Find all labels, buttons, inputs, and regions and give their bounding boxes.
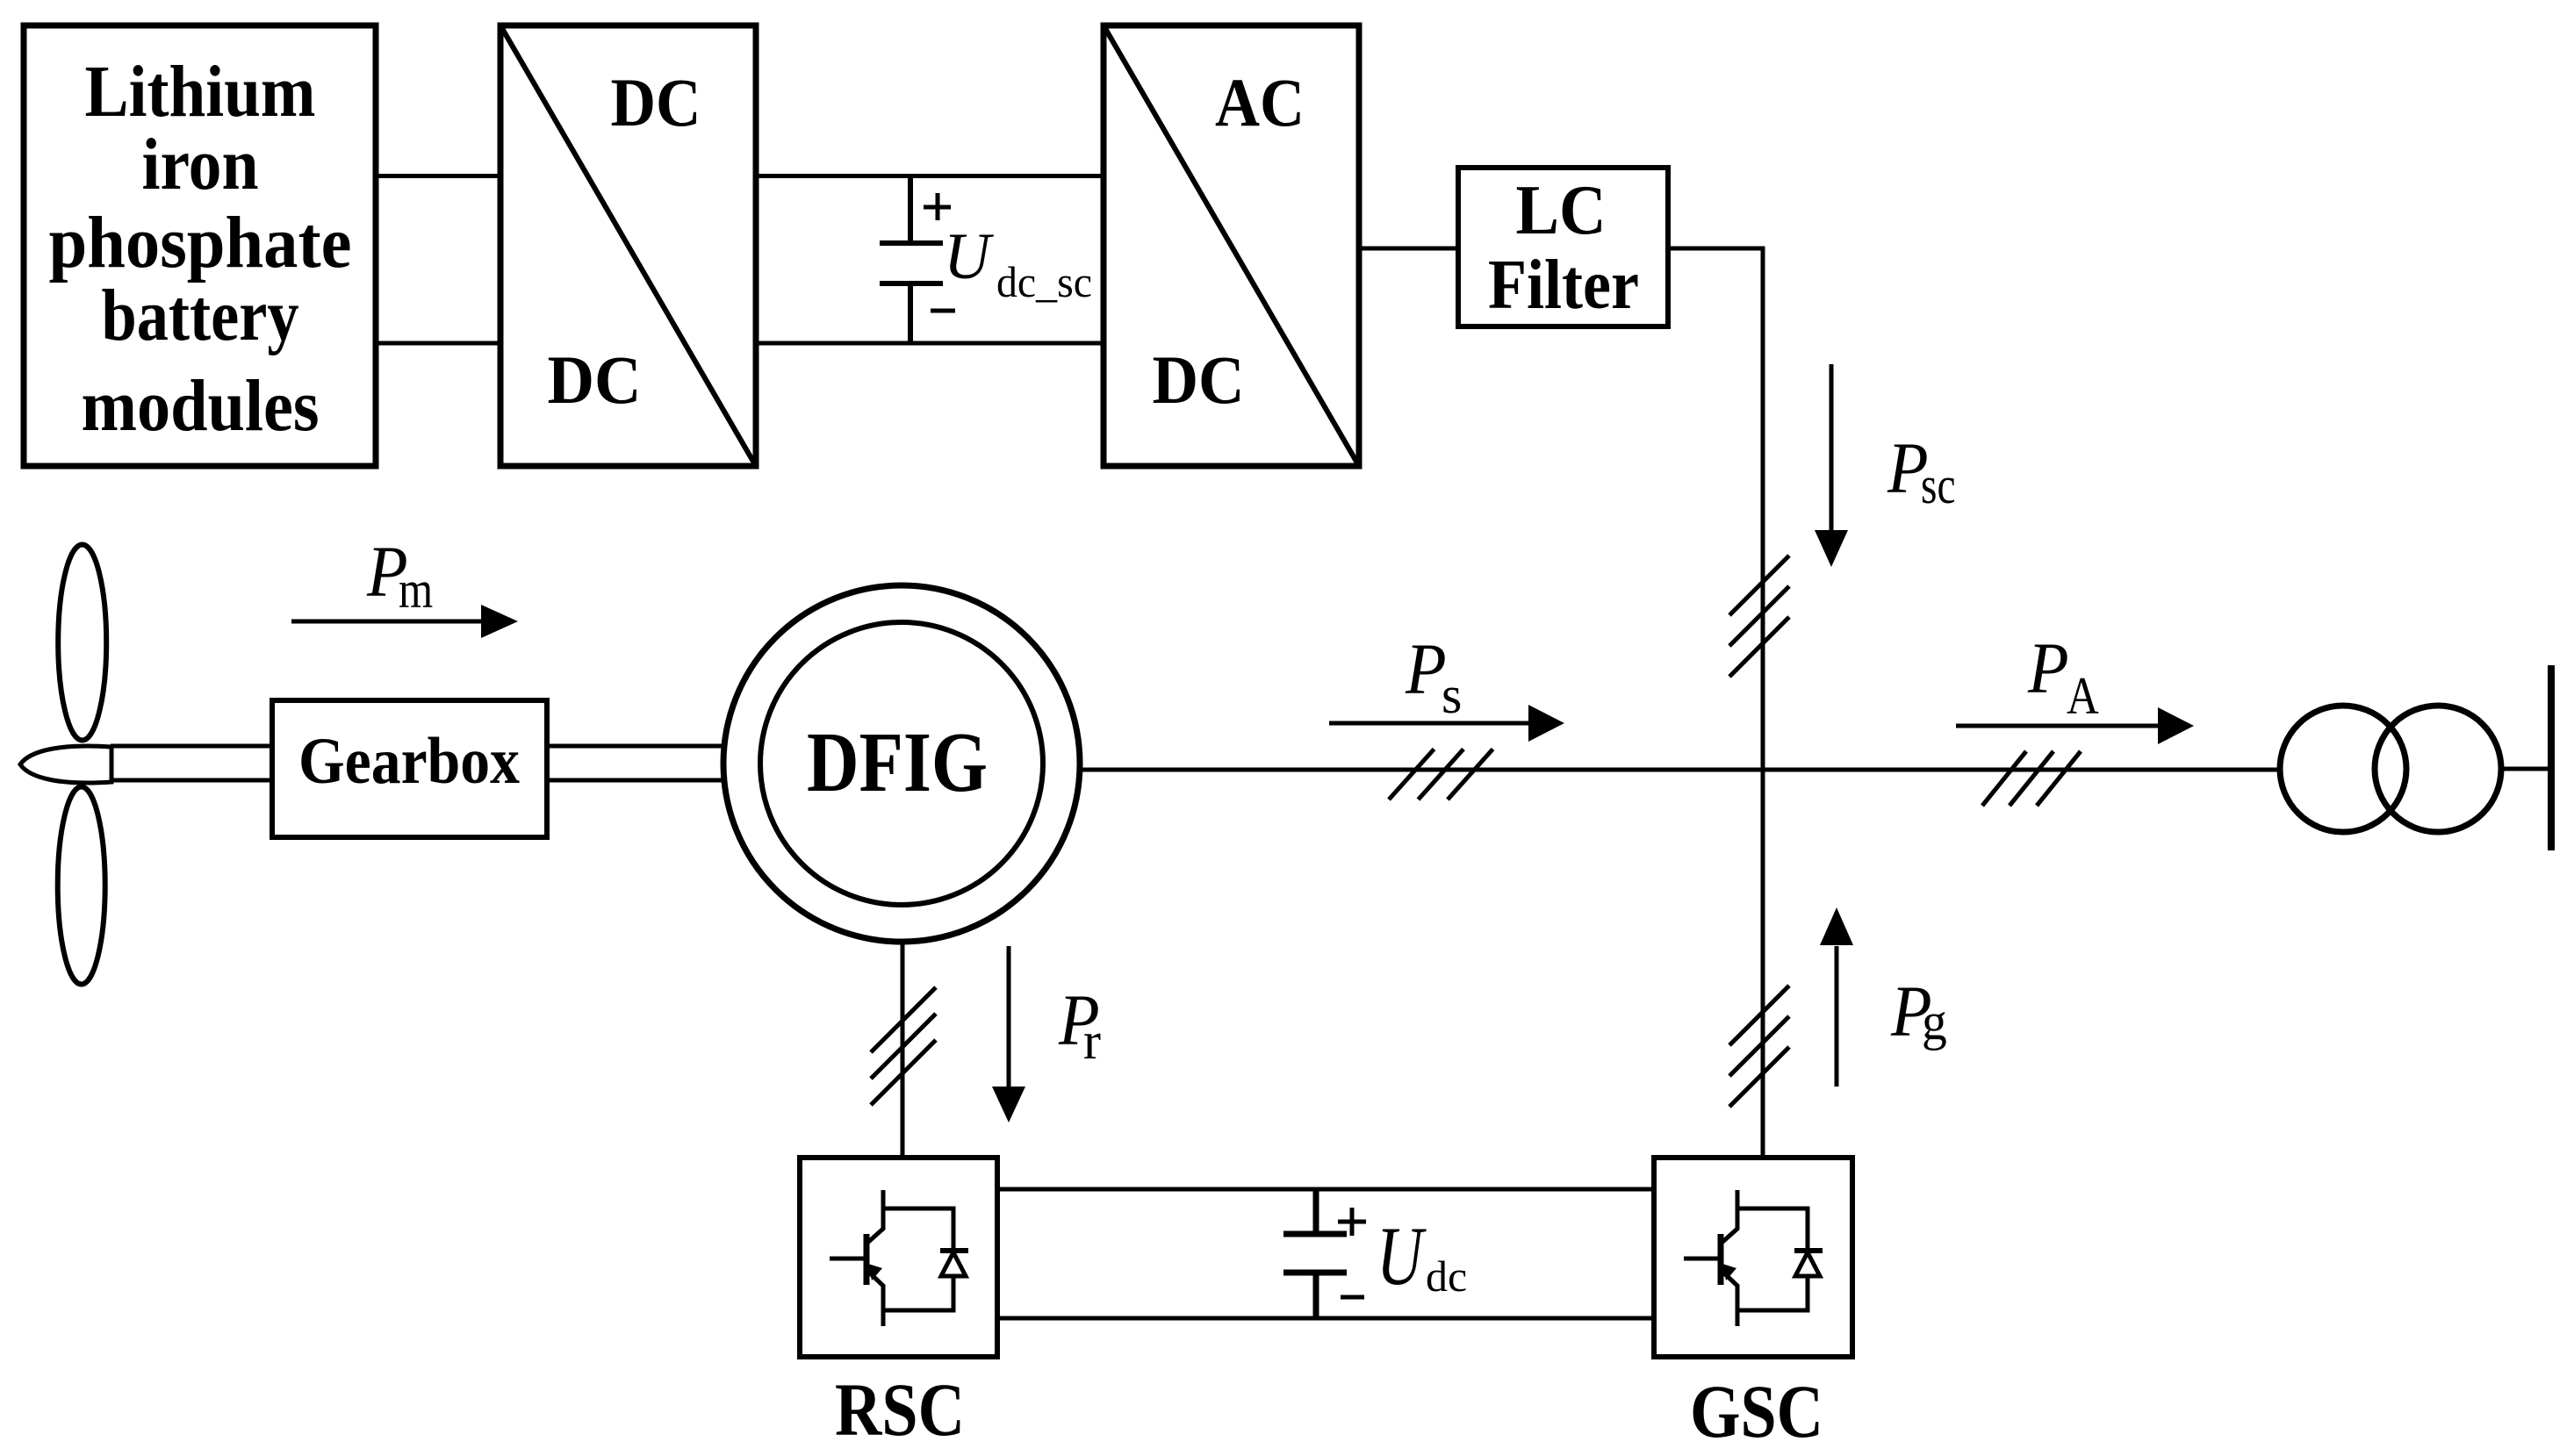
capacitor Udc [1283, 1189, 1366, 1318]
svg-text:r: r [1083, 1012, 1101, 1070]
converter GSC box [1654, 1158, 1852, 1357]
svg-text:iron: iron [142, 124, 259, 205]
wire battery to DC/DC bottom [376, 341, 500, 346]
three-phase slashes on LC drop above bus [1729, 556, 1789, 677]
LC filter box [1458, 168, 1668, 326]
wind turbine hub [20, 746, 111, 783]
svg-text:dc: dc [1426, 1252, 1467, 1301]
wire DC/DC to AC/DC bottom [756, 341, 1104, 346]
wind turbine blade (lower) [58, 787, 105, 985]
three-phase slashes on bus to transformer [1982, 751, 2081, 806]
wire RSC to GSC dc-link top [997, 1187, 1654, 1192]
svg-text:s: s [1442, 666, 1462, 724]
three-phase slashes on rotor wire [871, 987, 936, 1105]
wire AC/DC to LC filter [1359, 247, 1458, 251]
wire battery to DC/DC top [376, 174, 500, 178]
converter RSC box [800, 1158, 997, 1357]
svg-text:A: A [2067, 667, 2099, 726]
wire DC/DC to AC/DC top [756, 174, 1104, 178]
arrow Pg (up) [1820, 907, 1853, 1087]
transistor IGBT in GSC [1684, 1190, 1823, 1326]
generator DFIG [723, 585, 1080, 942]
svg-text:DC: DC [548, 341, 642, 418]
svg-text:Lithium: Lithium [85, 51, 316, 133]
svg-text:m: m [399, 561, 433, 619]
grid bus bar [2548, 665, 2555, 850]
svg-text:P: P [2027, 628, 2069, 709]
svg-text:phosphate: phosphate [49, 202, 352, 283]
arrow Ps [1329, 705, 1564, 742]
wire DFIG rotor down to RSC [901, 942, 905, 1158]
arrow Pr (down) [992, 946, 1025, 1122]
shaft turbine to gearbox (double line) [111, 744, 272, 749]
svg-text:P: P [1405, 629, 1447, 710]
three-phase slashes on GSC riser below bus [1729, 986, 1789, 1107]
main bus wire DFIG to transformer [1080, 768, 2280, 772]
svg-text:sc: sc [1921, 456, 1955, 515]
svg-text:AC: AC [1215, 64, 1305, 140]
svg-text:Gearbox: Gearbox [298, 725, 520, 798]
gearbox box [272, 700, 547, 837]
transformer (two overlapping circles) [2280, 706, 2501, 832]
svg-text:RSC: RSC [835, 1367, 965, 1452]
svg-text:LC: LC [1516, 172, 1607, 249]
converter U1 DC/DC box [500, 25, 756, 466]
svg-text:dc_sc: dc_sc [996, 257, 1092, 306]
battery box (Lithium iron phosphate battery modules) [24, 25, 376, 466]
three-phase slashes on stator bus [1389, 750, 1493, 800]
svg-text:modules: modules [82, 365, 320, 447]
wire RSC to GSC dc-link bottom [997, 1316, 1654, 1321]
svg-text:DC: DC [1153, 341, 1245, 418]
arrow PA [1956, 707, 2194, 744]
shaft gearbox to DFIG (double line) [547, 744, 725, 749]
svg-text:DC: DC [611, 64, 701, 140]
svg-text:Filter: Filter [1488, 247, 1639, 324]
converter U2 AC/DC box [1104, 25, 1359, 466]
wind turbine blade (upper) [58, 545, 106, 741]
svg-text:g: g [1922, 993, 1947, 1051]
label: battery box text [49, 51, 352, 447]
transistor IGBT in RSC [830, 1190, 968, 1326]
svg-text:U: U [1377, 1210, 1427, 1302]
svg-text:U: U [944, 220, 994, 293]
wire transformer to grid bar [2501, 767, 2549, 771]
svg-text:battery: battery [102, 275, 299, 356]
svg-text:GSC: GSC [1690, 1369, 1823, 1453]
capacitor Udc_sc [880, 176, 955, 344]
arrow Pm [291, 605, 518, 638]
wire LC filter to vertical drop [1668, 248, 1763, 1158]
arrow Psc (down) [1815, 364, 1848, 567]
svg-text:DFIG: DFIG [807, 715, 988, 810]
